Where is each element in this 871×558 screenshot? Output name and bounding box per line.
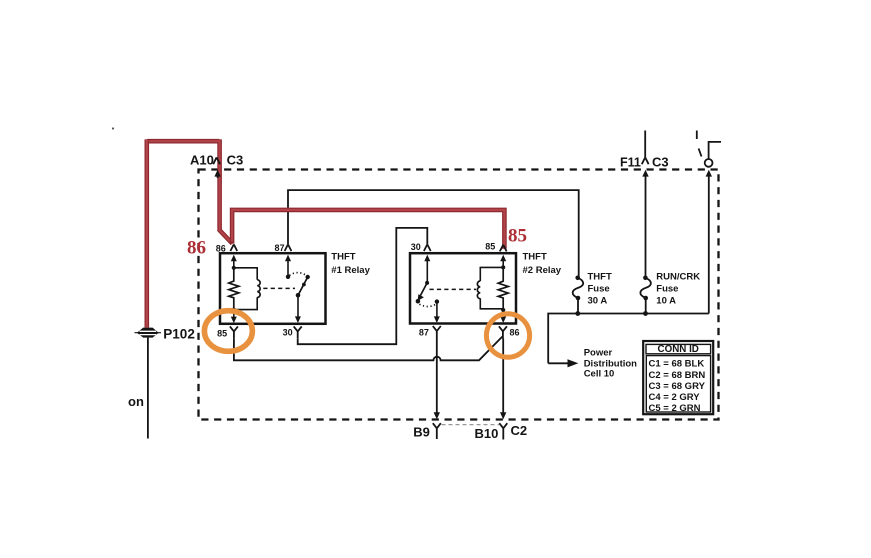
relay2 resistor R2 <box>498 267 508 310</box>
relay2 terminal 30 connector <box>424 244 431 251</box>
svg-text:30: 30 <box>283 328 293 338</box>
svg-text:85: 85 <box>485 242 495 252</box>
wire 86 relay2 to B10 <box>502 339 504 414</box>
RUN/CRK fuse F2 <box>643 276 648 281</box>
relay2 armature arm with arrowhead <box>419 283 427 298</box>
P102 grommet <box>135 328 162 338</box>
B9 connector female <box>433 423 441 439</box>
svg-text:#1 Relay: #1 Relay <box>331 265 370 276</box>
relay U1 box THFT #1 <box>220 253 326 324</box>
wire 87 relay1 to THFT fuse <box>288 190 579 278</box>
relay1 terminal 86 connector <box>230 244 237 251</box>
svg-text:30: 30 <box>411 242 421 252</box>
relay2 terminal 87 connector female <box>433 326 441 339</box>
relay2 arrow down to 86 <box>502 310 504 317</box>
svg-text:Power: Power <box>584 348 613 359</box>
relay2 terminal 86 connector female <box>499 326 507 338</box>
relay2 node top of coil <box>501 265 505 269</box>
wire F11 to RUN/CRK fuse <box>645 176 647 278</box>
arrow to power distribution <box>548 362 569 364</box>
svg-text:B10: B10 <box>475 426 499 441</box>
arrow down at B9 <box>434 412 440 419</box>
relay1 terminal 85 connector female <box>230 326 238 338</box>
relay2 armature top contact <box>425 281 429 285</box>
red wire left drop to P102 <box>145 139 150 327</box>
arrow down at B10 <box>500 412 506 419</box>
dashed corner fragment near splice <box>697 131 702 157</box>
relay2 mech dashed link <box>430 288 477 290</box>
relay1 node top of coil <box>232 266 236 270</box>
relay1 coil feed arrow from 86 <box>231 255 237 262</box>
C2 connector dashed link B9-B10 <box>442 424 500 426</box>
wire 85 relay1 to 86 relay2 (with hop over B9 wire) <box>234 337 502 361</box>
svg-text:B9: B9 <box>413 424 430 439</box>
relay1 armature arm <box>298 277 308 295</box>
relay2 switch feed arrow from 30 <box>424 255 430 262</box>
relay1 wire pivot to 30 <box>297 295 299 317</box>
svg-text:C2 = 68 BRN: C2 = 68 BRN <box>649 370 706 381</box>
svg-text:THFT: THFT <box>588 271 612 282</box>
wire splice to power rail <box>708 176 710 314</box>
relay2 fixed contact <box>435 299 439 303</box>
relay1 fixed contact <box>286 275 290 279</box>
arrow up below F11 <box>642 170 648 177</box>
connector A10 male half <box>213 157 220 164</box>
red wire 86 relay1 to 85 relay2 <box>232 210 504 249</box>
svg-text:10 A: 10 A <box>656 295 676 306</box>
relay1 terminal 87 connector <box>285 244 292 251</box>
svg-text:on: on <box>128 394 144 409</box>
svg-text:THFT: THFT <box>523 252 547 263</box>
relay1 coil L1 <box>257 280 260 298</box>
relay2 coil branch wire <box>480 267 503 308</box>
relay1 resistor R1 <box>229 268 239 310</box>
relay1 arrow down to 85 <box>233 310 235 317</box>
dashed harness box <box>199 170 719 420</box>
relay1 terminal 30 connector female <box>294 326 302 338</box>
svg-text:Fuse: Fuse <box>588 284 610 295</box>
svg-text:87: 87 <box>419 328 429 338</box>
relay1 node bottom of coil <box>232 308 236 312</box>
svg-text:RUN/CRK: RUN/CRK <box>656 271 700 282</box>
relay1 coil branch wire <box>234 268 257 310</box>
relay1 mech dashed link <box>263 287 295 289</box>
wire from splice up right <box>709 142 721 159</box>
svg-text:C2: C2 <box>511 423 528 438</box>
relay2 dotted travel arc <box>419 304 435 306</box>
speck <box>112 127 114 129</box>
svg-text:#2 Relay: #2 Relay <box>523 265 562 276</box>
svg-text:85: 85 <box>508 226 527 247</box>
arrow up below A10 <box>214 170 220 177</box>
relay2 coil L2 <box>477 281 480 299</box>
relay1 switch feed arrow from 87 <box>285 255 291 262</box>
svg-text:85: 85 <box>217 328 227 338</box>
svg-text:C3: C3 <box>227 153 244 168</box>
svg-text:87: 87 <box>274 243 284 253</box>
highlight circle at relay2 86 <box>486 314 529 358</box>
junction dot rail/RUNCRK <box>643 311 648 316</box>
svg-text:A10: A10 <box>190 152 214 167</box>
svg-text:C5 = 2 GRN: C5 = 2 GRN <box>649 403 701 414</box>
relay1 armature contact <box>306 275 310 279</box>
CONN ID table <box>643 341 713 414</box>
wire below P102 <box>147 338 149 439</box>
svg-text:Cell 10: Cell 10 <box>584 368 615 379</box>
svg-text:C3: C3 <box>652 154 669 169</box>
relay2 terminal 85 connector <box>500 245 507 252</box>
svg-text:86: 86 <box>216 243 226 253</box>
svg-text:CONN ID: CONN ID <box>658 344 699 355</box>
wire 30 relay1 to 30 relay2 <box>298 228 428 344</box>
svg-text:C4 = 2 GRY: C4 = 2 GRY <box>649 392 701 403</box>
junction dot rail/THFT <box>575 311 580 316</box>
relay2 wire contact to 87 <box>436 302 438 317</box>
B10 connector female <box>499 423 507 439</box>
relay1 dotted travel arc <box>289 273 306 276</box>
relay2 coil feed arrow from 85 <box>500 255 506 262</box>
arrow up below splice <box>706 170 712 177</box>
svg-text:86: 86 <box>187 237 206 258</box>
wire 87 relay2 to B9 <box>436 339 438 414</box>
highlight circle at relay1 85 <box>204 311 252 352</box>
connector F11 male half <box>642 157 649 164</box>
svg-text:30 A: 30 A <box>588 295 608 306</box>
power rail <box>548 314 709 364</box>
red wire A10 feed <box>147 139 233 243</box>
svg-text:C1 = 68 BLK: C1 = 68 BLK <box>649 359 705 370</box>
svg-text:Fuse: Fuse <box>656 284 678 295</box>
THFT fuse F1 <box>575 276 580 281</box>
svg-text:C3 = 68 GRY: C3 = 68 GRY <box>649 381 706 392</box>
relay U2 box THFT #2 <box>410 253 516 323</box>
svg-text:86: 86 <box>510 327 520 337</box>
splice circle top right <box>705 159 713 167</box>
svg-text:THFT: THFT <box>331 252 355 263</box>
svg-text:P102: P102 <box>163 326 195 341</box>
wire F11 feed above box <box>644 131 646 158</box>
svg-text:F11: F11 <box>620 155 641 169</box>
relay2 node bottom of coil <box>501 308 505 312</box>
